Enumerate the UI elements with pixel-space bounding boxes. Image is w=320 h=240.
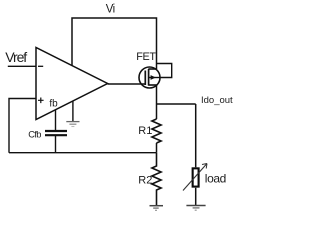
wire feedback rail: [9, 152, 157, 154]
transistor FET circle: [139, 67, 160, 88]
wire output node down to R1: [156, 104, 158, 119]
resistor R2: [152, 153, 161, 206]
svg-text:Vref: Vref: [5, 49, 27, 65]
wire R1 to feedback node: [156, 143, 158, 153]
plus sign non-inverting input: [38, 98, 44, 104]
ground op-amp: [66, 121, 79, 123]
FET gate bar: [144, 71, 146, 86]
wire op-amp output to FET gate: [108, 83, 146, 85]
wire non-inverting input to feedback rail: [9, 99, 36, 153]
svg-text:load: load: [205, 172, 226, 186]
wire capacitor to feedback rail: [55, 135, 57, 153]
FET drain stub bottom: [148, 84, 156, 86]
svg-text:fb: fb: [49, 99, 58, 110]
svg-text:Ido_out: Ido_out: [201, 95, 233, 106]
ground load: [186, 205, 205, 207]
capacitor Cfb: [45, 130, 67, 132]
wire op-amp ground stub: [72, 101, 74, 121]
svg-text:Vi: Vi: [106, 4, 115, 16]
wire FET body loop: [157, 64, 172, 78]
ground R2: [150, 205, 164, 207]
wire Vi top rail: [72, 18, 157, 69]
svg-text:R1: R1: [138, 125, 152, 137]
load box: [193, 168, 199, 186]
FET channel bar: [148, 69, 150, 86]
svg-text:Cfb: Cfb: [28, 129, 41, 139]
resistor R1: [152, 119, 161, 143]
wire Ido_out down to load: [195, 104, 197, 167]
wire Vref to inverting input: [8, 65, 36, 67]
load variable arrow: [183, 164, 207, 191]
wire FET drain down to output node: [156, 85, 158, 104]
wire fb tap down to capacitor: [55, 110, 57, 131]
svg-text:R2: R2: [138, 174, 152, 186]
svg-text:FET: FET: [136, 51, 156, 63]
op-amp U1: [36, 48, 108, 120]
FET body stub with arrow: [148, 77, 160, 79]
wire output rail Ido_out: [157, 103, 196, 105]
wire load to ground: [195, 188, 197, 205]
minus sign inverting input: [38, 65, 43, 67]
FET source stub top: [148, 68, 156, 70]
